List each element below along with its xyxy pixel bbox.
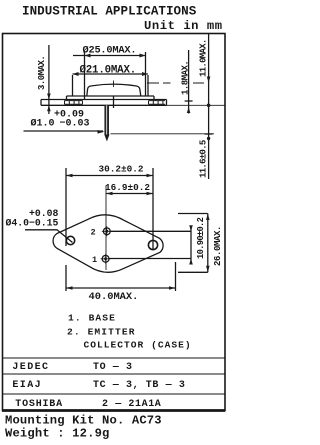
arrows 40.0: [66, 286, 176, 290]
extension line 40.0 left: [65, 265, 67, 291]
flange right edge: [166, 100, 168, 106]
pin1 extension line right: [110, 258, 192, 260]
left mounting hole: [66, 236, 74, 244]
flange bottom extended reference line: [167, 104, 226, 106]
hole dia leader: [25, 230, 73, 243]
extension line right D25: [145, 52, 147, 96]
hole dia tolerance label: [6, 208, 59, 229]
svg-text:3.0MAX.: 3.0MAX.: [37, 56, 47, 90]
extension line 30.2/16.9 right to hole: [152, 168, 154, 250]
arrows 16.9: [106, 192, 153, 196]
svg-text:11.0MAX.: 11.0MAX.: [199, 39, 209, 77]
dim label 26.0MAX.: [213, 226, 223, 266]
pin label 2: [91, 228, 96, 238]
junction dot 11.6: [207, 137, 210, 140]
svg-text:10.90±0.2: 10.90±0.2: [196, 217, 206, 259]
dim line D21: [73, 73, 149, 75]
dim line D25: [73, 55, 146, 57]
frame bottom heavy rule: [2, 409, 225, 412]
dim 11.0MAX line: [208, 34, 210, 179]
26.0 top reference line: [178, 213, 208, 215]
svg-text:−0.03: −0.03: [60, 119, 90, 130]
right mounting hole: [148, 240, 157, 249]
dim line 26.0: [207, 214, 209, 273]
flange left edge: [40, 100, 42, 106]
dim 3.0MAX arrows: [47, 94, 51, 112]
pin 2: [103, 228, 110, 235]
pin dia tolerance label: [31, 110, 90, 130]
svg-text:11.6±0.5: 11.6±0.5: [199, 140, 209, 178]
dim label 10.90+-0.2: [196, 217, 206, 259]
flange hatch left: [65, 101, 83, 105]
svg-text:2: 2: [91, 228, 96, 238]
svg-text:30.2±0.2: 30.2±0.2: [99, 164, 144, 175]
svg-text:JEDEC: JEDEC: [12, 362, 49, 373]
extension line 40.0 right: [175, 262, 177, 291]
table separator 2: [3, 393, 226, 395]
dim 3.0MAX leader line: [48, 45, 50, 114]
dim label D25.0MAX.: [83, 45, 137, 57]
flange outline: [53, 215, 163, 273]
can dome: [87, 84, 141, 96]
flange bottom line: [41, 104, 167, 106]
flange hatch right: [149, 101, 166, 105]
extension stub right D21: [147, 75, 149, 96]
dim 11.0MAX arrow: [207, 77, 211, 84]
dim line 40.0: [66, 287, 176, 289]
svg-text:COLLECTOR (CASE): COLLECTOR (CASE): [84, 340, 192, 351]
svg-text:26.0MAX.: 26.0MAX.: [213, 226, 223, 266]
svg-text:Ø25.0MAX.: Ø25.0MAX.: [83, 45, 137, 57]
table separator 1: [3, 373, 226, 375]
dim line 10.90: [190, 226, 192, 264]
pin tip arrow: [104, 135, 109, 142]
pin 1: [102, 255, 109, 262]
svg-text:TO — 3: TO — 3: [93, 362, 133, 373]
pin2 extension line right: [111, 230, 192, 232]
dim 1.8MAX tick: [185, 100, 193, 102]
dome top extended dash line: [147, 82, 204, 84]
junction dot 11.0MAX: [207, 104, 211, 108]
dim label 1.8MAX.: [181, 61, 191, 95]
arrows D25: [85, 54, 146, 58]
dim line 30.2: [66, 175, 153, 177]
dim label 40.0MAX.: [89, 291, 139, 303]
pin label 1: [92, 255, 97, 265]
svg-text:TOSHIBA: TOSHIBA: [15, 399, 63, 410]
svg-text:EIAJ: EIAJ: [12, 380, 42, 391]
pin side view: [104, 105, 109, 134]
arrows 26.0: [206, 214, 210, 273]
26.0 bottom reference line: [178, 271, 208, 273]
dim 1.8MAX line: [188, 50, 190, 114]
dim label 30.2+-0.2: [99, 164, 144, 175]
dim label D21.0MAX.: [80, 64, 137, 76]
extension line 30.2 left to hole: [65, 168, 67, 246]
extension line left D25: [84, 52, 86, 99]
svg-text:−0.15: −0.15: [29, 217, 59, 228]
arrows 10.90: [189, 225, 193, 264]
svg-text:TC — 3, TB — 3: TC — 3, TB — 3: [93, 380, 185, 391]
dim label 16.9+-0.2: [105, 182, 150, 193]
dim label 3.0MAX.: [37, 56, 47, 90]
extension centerline 16.9 left through pins: [105, 186, 107, 270]
svg-text:Weight : 12.9g: Weight : 12.9g: [5, 427, 110, 441]
pin stub tick: [113, 97, 115, 109]
pin dia leader arrow: [98, 130, 105, 134]
dim 1.8MAX arrow: [187, 107, 191, 113]
svg-text:1: 1: [92, 255, 97, 265]
table top line: [3, 357, 226, 359]
svg-text:16.9±0.2: 16.9±0.2: [105, 182, 150, 193]
flange top line: [41, 99, 167, 101]
arrows D21: [73, 72, 149, 76]
svg-text:1. BASE: 1. BASE: [68, 313, 116, 324]
can skirt top: [67, 95, 155, 97]
svg-text:INDUSTRIAL APPLICATIONS: INDUSTRIAL APPLICATIONS: [22, 5, 197, 19]
can skirt right edge: [153, 96, 155, 100]
can skirt left edge: [66, 96, 68, 100]
pin dia leader line: [24, 130, 104, 132]
extension stub left D21: [72, 75, 74, 96]
dim label 11.0MAX.: [199, 39, 209, 77]
outer frame: [3, 34, 226, 411]
dim label 11.6+-0.5: [199, 140, 209, 178]
dome center tick: [113, 81, 115, 88]
svg-text:Ø4.0: Ø4.0: [6, 217, 30, 228]
arrows 30.2: [66, 174, 153, 178]
svg-text:Mounting Kit No. AC73: Mounting Kit No. AC73: [5, 414, 162, 428]
svg-text:Ø1.0: Ø1.0: [31, 118, 55, 130]
dim 11.6 tick: [205, 133, 213, 135]
svg-text:40.0MAX.: 40.0MAX.: [89, 291, 139, 303]
svg-text:Unit in mm: Unit in mm: [144, 19, 223, 33]
pin tip reference line: [111, 133, 215, 135]
svg-text:2 — 21A1A: 2 — 21A1A: [102, 399, 161, 410]
svg-text:2. EMITTER: 2. EMITTER: [67, 327, 136, 338]
svg-text:1.8MAX.: 1.8MAX.: [181, 61, 191, 95]
dim line 16.9: [106, 193, 153, 195]
